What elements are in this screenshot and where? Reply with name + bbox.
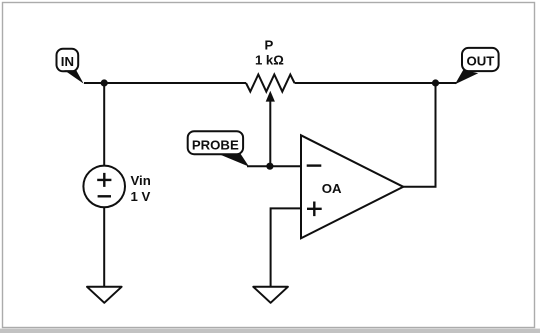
voltage source Vin	[83, 166, 125, 208]
wire Vin to ground	[103, 207, 105, 286]
wire op-amp non-inverting input	[271, 208, 301, 286]
wire node A down to Vin	[103, 83, 105, 166]
port tag PROBE	[188, 131, 249, 166]
ground (right)	[253, 287, 288, 303]
wire IN to node A	[84, 82, 104, 84]
non-inverting input marking	[307, 202, 322, 217]
port tag IN	[57, 49, 84, 84]
minus marking	[98, 195, 111, 197]
port tag OUT	[455, 48, 499, 84]
svg-text:PROBE: PROBE	[192, 138, 239, 153]
wire PROBE to node B	[247, 165, 270, 167]
op-amp OA	[301, 135, 403, 238]
svg-text:P: P	[265, 37, 274, 52]
svg-text:Vin: Vin	[131, 173, 151, 188]
potentiometer P	[246, 75, 295, 92]
wire node A to potentiometer	[104, 82, 246, 84]
svg-text:OUT: OUT	[466, 54, 494, 69]
wire node B to op-amp inverting input	[270, 165, 301, 167]
svg-text:IN: IN	[61, 54, 74, 69]
wire op-amp output	[403, 83, 435, 187]
node B (junction dot)	[266, 163, 273, 170]
ground (left)	[87, 287, 122, 303]
wire potentiometer to OUT node	[295, 82, 457, 84]
inverting input marking	[307, 164, 322, 166]
node C (junction dot)	[432, 79, 439, 86]
wiper arrow	[266, 91, 275, 102]
plus marking	[97, 173, 111, 187]
node A (junction dot)	[101, 79, 108, 86]
svg-text:1 V: 1 V	[131, 189, 151, 204]
svg-text:OA: OA	[322, 181, 342, 196]
svg-text:1 kΩ: 1 kΩ	[255, 53, 284, 68]
